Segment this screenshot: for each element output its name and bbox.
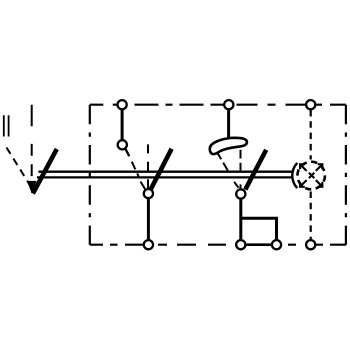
switch housing dash-dot enclosure: left edge bbox=[89, 105, 91, 245]
illumination lamp: four outward arrows bbox=[300, 164, 322, 187]
arrowhead of lever travel line bbox=[27, 181, 37, 194]
pivot P1 bbox=[144, 189, 153, 198]
terminal T6 (bottom) bbox=[272, 240, 281, 249]
dashed wire terminal T3 to lamp bbox=[310, 110, 312, 160]
dashed diagonal link C2 tail to pivot P1 (lower dash) bbox=[141, 182, 146, 190]
illumination lamp: center cross bbox=[309, 173, 314, 178]
terminal T1 (top left, on housing top edge) bbox=[118, 100, 127, 109]
pivot P2 bbox=[236, 189, 245, 198]
arrow SW bbox=[300, 180, 307, 187]
lever alternate position (dashed diagonal, left) bbox=[7, 148, 30, 185]
curved contact bridge (kidney shaped wiper) bbox=[210, 138, 247, 154]
terminal T2 (top middle) bbox=[224, 100, 233, 109]
actuating lever (thick stroke, outside housing) bbox=[33, 149, 57, 194]
lever travel line (dashed vertical, left) bbox=[31, 105, 33, 176]
fixed contact C2 with tail bbox=[118, 140, 127, 149]
arrow NE bbox=[316, 164, 323, 171]
terminal T7 (bottom right) bbox=[306, 240, 315, 249]
wire pivot P1 to terminal T4 bbox=[147, 198, 150, 240]
wire terminal T2 to contact bridge bbox=[227, 109, 230, 140]
switch housing dash-dot enclosure: right edge bbox=[345, 105, 347, 245]
terminal T4 (bottom, on housing bottom edge) bbox=[144, 240, 153, 249]
branch wire to terminal T6 (L shape) bbox=[241, 218, 277, 240]
dashed diagonal link C2 tail to pivot P1 (upper dashes) bbox=[129, 156, 139, 177]
lever end-position marks (two parallel strokes, top left) bbox=[4, 115, 9, 136]
terminal T1 wire (T1 to fixed contact C2) bbox=[121, 109, 124, 140]
switch housing dash-dot enclosure: bottom edge bbox=[90, 244, 346, 246]
movable contact lever of pole 2 (thick) bbox=[245, 150, 266, 190]
dashed vertical position line above pivot P2 (upper) bbox=[240, 150, 242, 171]
actuator bar (double mechanical link line) bbox=[37, 172, 293, 178]
terminal T3 (top right) bbox=[306, 100, 315, 109]
dashed vertical position line above pivot P1 bbox=[147, 144, 149, 189]
dashed diagonal link bridge to pivot P2 (lower dash) bbox=[234, 182, 238, 188]
arrow NW bbox=[300, 164, 307, 171]
lamp socket arc at end of actuator bar bbox=[292, 163, 297, 188]
dashed wire lamp to terminal T7 bbox=[310, 192, 312, 240]
arrow SE bbox=[316, 180, 323, 187]
fixed contact C2 tail stroke bbox=[125, 149, 129, 157]
illumination lamp: dashed circle bbox=[297, 162, 325, 190]
movable contact lever of pole 1 (thick) bbox=[151, 149, 172, 189]
wire pivot P2 to terminal T5 bbox=[239, 198, 242, 240]
link wire T5 to T6 bbox=[245, 243, 272, 246]
switch housing dash-dot enclosure: top edge bbox=[90, 104, 346, 106]
dashed vertical position line above pivot P2 (lower dash) bbox=[240, 184, 242, 188]
dashed diagonal link bridge to pivot P2 (upper dashes) bbox=[218, 154, 232, 177]
terminal T5 (bottom) bbox=[236, 240, 245, 249]
